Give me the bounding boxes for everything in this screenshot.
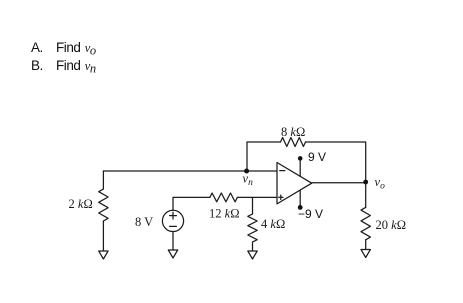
svg-text:20 kΩ: 20 kΩ <box>376 218 406 232</box>
resistor R 2k zigzag <box>99 189 108 221</box>
wire: 12k to op-amp plus input <box>237 196 277 198</box>
svg-text:8 kΩ: 8 kΩ <box>281 125 305 139</box>
wire: positive supply stub <box>299 158 301 176</box>
svg-text:B.: B. <box>31 58 43 73</box>
ground (20k branch) <box>361 250 370 258</box>
node +9V supply dot <box>298 156 303 161</box>
svg-text:Find vn: Find vn <box>56 58 96 76</box>
op-amp minus pin mark <box>280 170 285 172</box>
wire: negative supply stub <box>299 190 301 207</box>
wire: 2k to ground <box>102 221 104 251</box>
wire: 20k to ground <box>365 240 367 250</box>
svg-text:−9 V: −9 V <box>298 207 323 221</box>
wire: op-amp output <box>312 182 366 184</box>
wire: left branch down to 2k <box>102 171 104 189</box>
svg-text:8 V: 8 V <box>135 215 153 229</box>
svg-text:Find vo: Find vo <box>56 40 96 58</box>
ground (4k branch) <box>248 251 257 259</box>
wire: output node down to 20k <box>365 183 367 208</box>
resistor R 20k zigzag <box>361 207 370 239</box>
node -9V supply dot <box>298 205 303 210</box>
wire: top feedback left segment <box>247 142 281 171</box>
svg-text:4 kΩ: 4 kΩ <box>261 217 285 231</box>
wire: inverting input horizontal <box>103 170 277 172</box>
ground (source branch) <box>168 250 177 258</box>
op-amp plus pin mark <box>279 196 283 198</box>
op-amp U1 triangle <box>277 163 312 204</box>
wire: 4k branch down from plus rail <box>252 197 254 214</box>
voltage source VS 8V circle <box>162 210 183 231</box>
svg-text:2 kΩ: 2 kΩ <box>69 197 93 211</box>
resistor R 12k zigzag <box>210 193 238 202</box>
minus sign inside source <box>170 225 177 227</box>
svg-text:12 kΩ: 12 kΩ <box>209 207 239 221</box>
plus sign inside source <box>170 215 177 217</box>
wire: 4k to ground <box>252 242 254 251</box>
wire: source top to plus rail <box>173 197 210 210</box>
svg-text:9 V: 9 V <box>308 150 326 164</box>
svg-text:A.: A. <box>31 40 43 55</box>
node vn junction dot <box>244 169 249 174</box>
ground (2k branch) <box>99 251 108 259</box>
resistor R 8k zigzag <box>281 138 306 147</box>
wire: top feedback right segment <box>306 142 366 180</box>
node vo junction dot <box>363 180 368 185</box>
resistor R 4k zigzag <box>248 214 257 242</box>
wire: source bottom to ground <box>172 232 174 251</box>
